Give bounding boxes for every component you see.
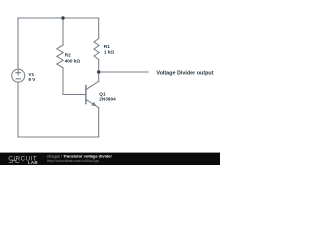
junction dot node output	[97, 70, 100, 73]
svg-text:2N3904: 2N3904	[99, 97, 116, 102]
svg-text:400 kΩ: 400 kΩ	[65, 58, 81, 63]
svg-text:1 kΩ: 1 kΩ	[104, 49, 115, 54]
svg-text:9 V: 9 V	[28, 77, 36, 82]
resistor R2	[57, 18, 63, 95]
transistor Q1	[86, 81, 99, 107]
svg-text:R2: R2	[65, 53, 71, 58]
wire top rail	[18, 17, 99, 19]
resistor R1	[94, 18, 99, 72]
transistor Q1 emitter arrow	[91, 102, 96, 106]
wire bottom rail	[18, 136, 99, 138]
wire left vertical lower	[17, 82, 19, 137]
wire left vertical upper	[17, 18, 19, 69]
svg-text:R1: R1	[104, 44, 110, 49]
junction dot node top	[61, 16, 64, 19]
svg-text:LAB: LAB	[28, 160, 38, 165]
wire base	[63, 94, 86, 96]
wire collector	[98, 72, 100, 81]
wire output	[99, 71, 148, 73]
footer bar	[0, 153, 220, 165]
voltage source V1	[12, 69, 25, 82]
svg-text:http://circuitlab.com/c/64a2gu: http://circuitlab.com/c/64a2gu	[47, 158, 99, 163]
footer logo waveform	[9, 160, 20, 162]
wire emitter	[98, 108, 100, 137]
svg-text:Voltage Divider output: Voltage Divider output	[156, 70, 213, 76]
